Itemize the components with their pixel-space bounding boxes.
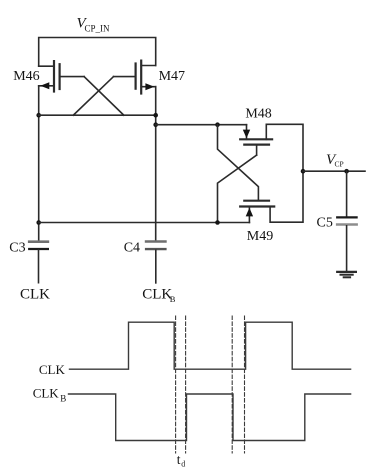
capacitor C5 xyxy=(337,171,356,272)
svg-text:t: t xyxy=(177,452,181,467)
waveform CLK trace xyxy=(70,322,351,369)
junction dot bottom rail right xyxy=(215,220,220,225)
wire bottom rail xyxy=(39,222,250,224)
junction dot rail takeoff xyxy=(153,122,158,127)
junction node VCP xyxy=(301,169,306,174)
ground xyxy=(337,272,356,277)
junction node B xyxy=(153,113,158,118)
svg-text:CP: CP xyxy=(335,159,344,168)
dashed marker t2 CLKB rise xyxy=(185,316,187,453)
label CLKB schematic xyxy=(142,286,176,303)
wire diagonal M47 gate to node A xyxy=(73,77,113,116)
wire cross X2 from M48 gate xyxy=(218,155,257,222)
wire diagonal M46 gate to node B xyxy=(84,77,124,116)
svg-text:CLK: CLK xyxy=(39,362,66,377)
svg-text:CLK: CLK xyxy=(20,286,50,302)
svg-text:M47: M47 xyxy=(159,69,185,84)
capacitor C4 xyxy=(146,242,165,283)
wire cross X1 to M49 gate xyxy=(218,125,259,201)
wire top rail xyxy=(39,38,156,67)
wire VCP output xyxy=(303,170,365,172)
svg-text:CP_IN: CP_IN xyxy=(85,24,111,34)
wire M47 drain branch vertical xyxy=(155,87,157,242)
junction dot C5 tap xyxy=(344,169,349,174)
svg-text:B: B xyxy=(170,294,176,304)
svg-text:M48: M48 xyxy=(245,106,271,121)
junction dot on M48 rail xyxy=(215,122,220,127)
label VCP_IN xyxy=(77,15,111,33)
junction dot bottom rail left xyxy=(36,220,41,225)
label td xyxy=(177,452,186,469)
svg-text:B: B xyxy=(60,394,66,404)
svg-text:M49: M49 xyxy=(247,229,273,244)
label CLKB waveform xyxy=(33,386,67,404)
svg-text:d: d xyxy=(181,460,185,469)
junction node A xyxy=(36,113,41,118)
svg-text:C3: C3 xyxy=(9,241,25,256)
svg-text:CLK: CLK xyxy=(33,386,60,401)
dashed marker t4 CLK rise xyxy=(244,316,246,453)
svg-text:CLK: CLK xyxy=(142,286,172,302)
capacitor C3 xyxy=(29,242,48,283)
waveform CLKB trace xyxy=(69,394,351,441)
transistor M46 xyxy=(39,61,84,91)
label VCP xyxy=(326,152,344,168)
svg-text:C5: C5 xyxy=(317,216,333,231)
transistor M47 xyxy=(114,61,156,94)
svg-text:C4: C4 xyxy=(124,241,140,256)
wire node link A-B xyxy=(39,114,156,116)
wire M46 drain branch vertical xyxy=(38,86,40,242)
transistor M49 xyxy=(240,201,274,223)
dashed marker t3 CLKB fall xyxy=(231,316,233,453)
transistor M48 xyxy=(240,125,272,155)
wire rail to M48 xyxy=(156,124,247,126)
svg-text:M46: M46 xyxy=(13,69,39,84)
dashed marker t1 CLK fall xyxy=(175,316,177,453)
wire right trunk xyxy=(266,124,303,222)
